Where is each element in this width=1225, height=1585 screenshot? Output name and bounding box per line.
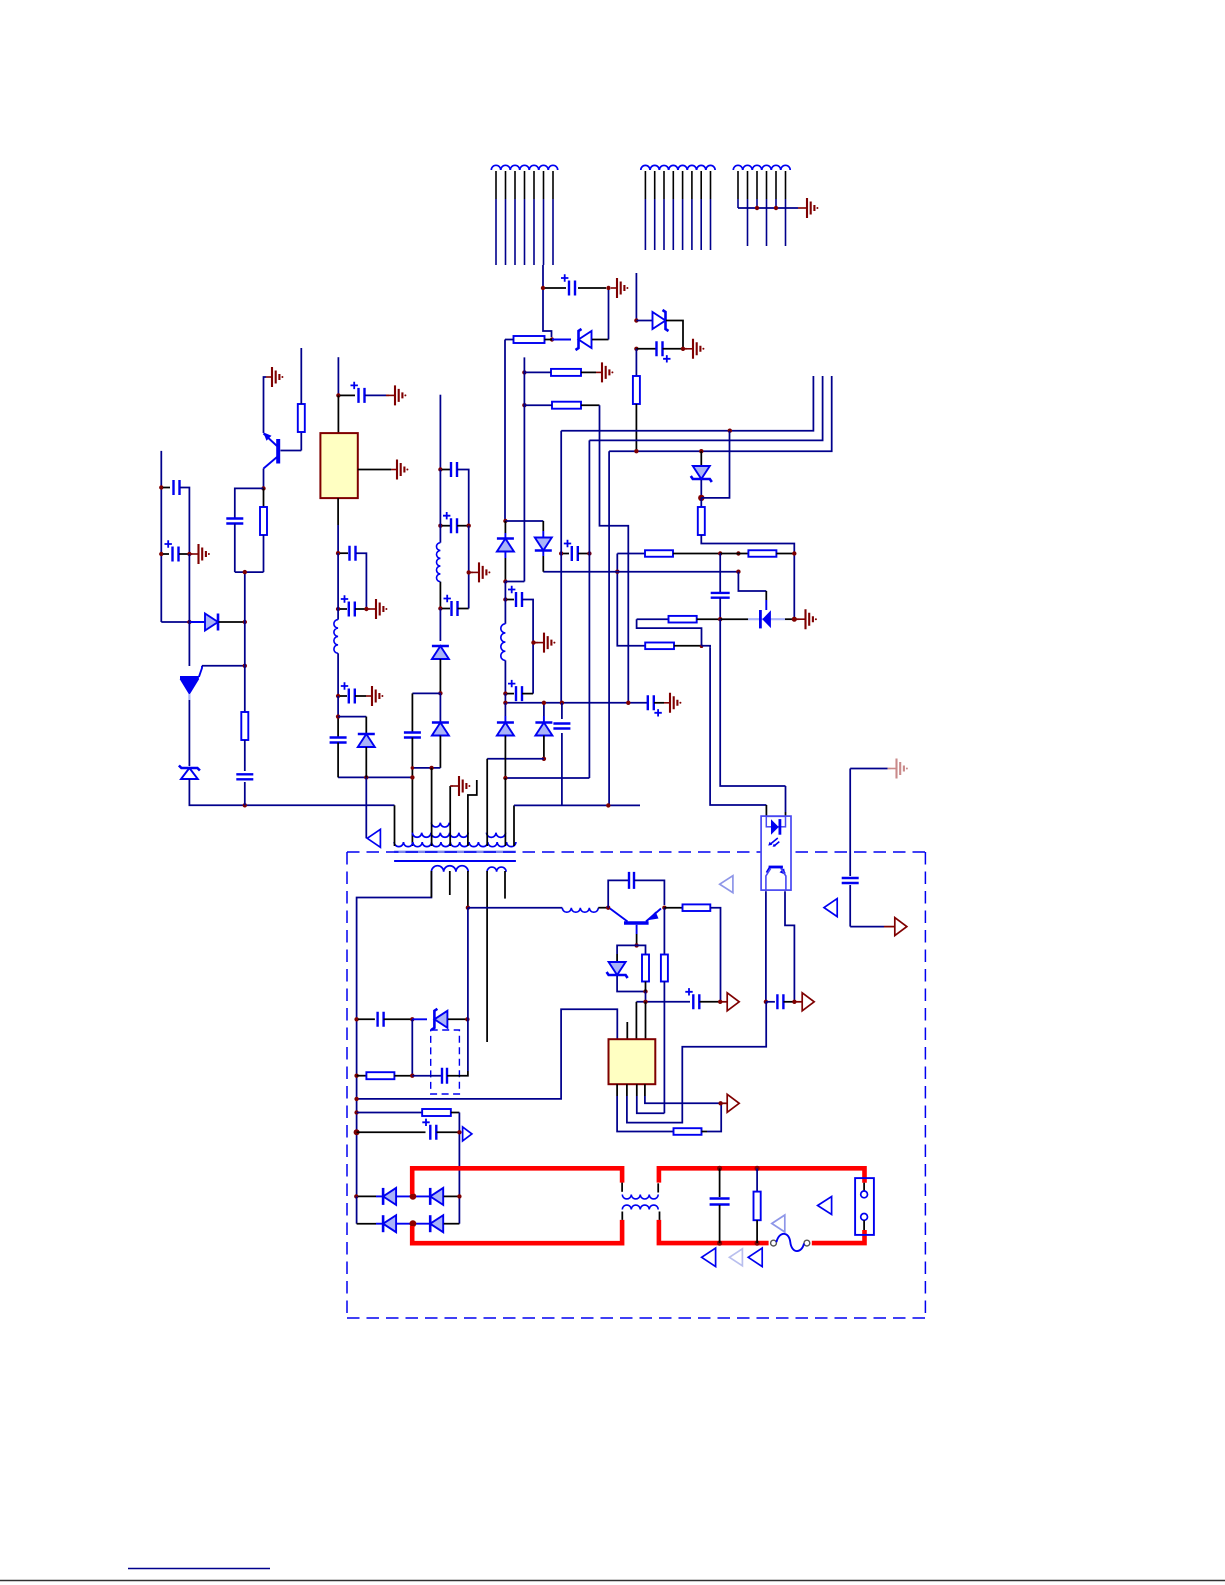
wire x720 upper segment [719, 554, 721, 593]
connector CN1 pin 7 [552, 171, 554, 199]
wire Q2 base down [636, 925, 638, 934]
ground G10 [391, 469, 397, 471]
column x244 [244, 572, 246, 712]
capacitor C12 [173, 547, 179, 562]
capacitor C27 [711, 593, 730, 598]
junction x244-y805 [243, 803, 247, 807]
wire to L3 [337, 553, 339, 619]
wire to C4 [507, 599, 514, 601]
wire Q1 emitter down [263, 469, 265, 489]
junction Q2 base node [634, 943, 638, 947]
wire x467 column [467, 908, 469, 1020]
wire x412 column [411, 1019, 413, 1075]
junction C10 left [438, 606, 442, 610]
capacitor C10 [452, 601, 458, 616]
resistor R1 [514, 336, 545, 343]
wire sec pin3 [467, 871, 469, 908]
junction C17 right [364, 607, 368, 611]
transformer T1 primary winding row3 [431, 823, 449, 827]
wire D2 to C2 [666, 321, 683, 348]
resistor R4 [633, 376, 640, 404]
wire x645 to IC2 [645, 1002, 647, 1039]
zener diode D1 [552, 339, 571, 341]
wire C4 right down [522, 600, 533, 694]
resistor R17 across mains [756, 1168, 758, 1191]
wire to D13 [412, 1018, 427, 1020]
net arrow NA13 [748, 1248, 762, 1267]
diode D9 [432, 723, 449, 736]
connector CN3 pin 3 [756, 171, 758, 199]
connector CN1 pin 4 [524, 171, 526, 199]
red trace left loop [412, 1168, 622, 1243]
wire D14-D15 [397, 1195, 430, 1197]
net arrow NA12 [729, 1249, 742, 1266]
junction C15 left [336, 393, 340, 397]
wire R14 lead [702, 1131, 708, 1133]
junction D4 bottom [503, 579, 507, 583]
diode D7 column x505 lower [504, 703, 506, 716]
wire to L2 [439, 470, 441, 543]
wire T1 pin x487 [486, 759, 488, 846]
capacitor C14 [226, 519, 243, 524]
junction D4 top [503, 519, 507, 523]
junction bus-D6 [542, 701, 546, 705]
junction bridge row1 right [457, 1194, 461, 1198]
net arrow NA6 [802, 993, 814, 1011]
wire to L4 [468, 907, 562, 909]
bridge row1 [358, 1195, 376, 1197]
junction C5 left [503, 691, 507, 695]
ground G5 [664, 702, 670, 704]
junction C3 left [559, 551, 563, 555]
wire C1 to gnd [578, 287, 606, 289]
wire R3 right jog down [600, 405, 629, 703]
junction x505-y778 [503, 776, 507, 780]
ground G12 [366, 695, 372, 697]
node V1 [541, 286, 545, 290]
connector CN1 pin 6 [543, 171, 545, 199]
net arrow NA7 [727, 1094, 739, 1112]
junction R1-D1 [550, 337, 554, 341]
capacitor C18 [349, 689, 355, 704]
junction D13-x467 [465, 1017, 469, 1021]
wire top stub [635, 273, 637, 321]
wire x850 [849, 769, 851, 877]
junction bus-x628 [626, 701, 630, 705]
ground G2 [596, 371, 602, 373]
junction bridge row1 left [354, 1194, 358, 1198]
row y=571.7 wire [543, 571, 738, 573]
diode D7 [497, 723, 514, 736]
footer rule [0, 1580, 1225, 1582]
capacitor C21 [629, 872, 634, 889]
wire to D10 [189, 621, 205, 623]
wire y=758.8 [487, 758, 544, 760]
wire R10-C14 bottom [235, 571, 264, 573]
capacitor C8 [451, 462, 457, 477]
junction C3 right [587, 551, 591, 555]
resistor R6 [645, 550, 673, 557]
wire bus2 [589, 376, 822, 440]
wire bus3 to D3 [700, 451, 702, 465]
wire bus3 left vertical [608, 451, 610, 806]
wire R4 to bus3 [635, 404, 637, 451]
wire x412 to transformer [411, 738, 413, 847]
wire T1 pin x505 [504, 778, 506, 846]
wire D10 right [219, 621, 245, 623]
wire to net arrow NA2 [850, 926, 884, 928]
junction C8 left [438, 467, 442, 471]
wire C16 right down [356, 553, 366, 609]
junction row-R11 [643, 1000, 647, 1004]
junction x617 row [615, 570, 619, 574]
wire sec pin5 stub [504, 871, 506, 899]
junction gnd x533 [531, 640, 535, 644]
junction bus-x505 [503, 701, 507, 705]
red trace right loop [659, 1168, 865, 1243]
wire R18 to x710 [702, 646, 711, 648]
wire x161 corner to D10 [161, 621, 189, 623]
ground G6 [473, 571, 479, 573]
connector CN1 pin 3 [514, 171, 516, 199]
junction Q1 emitter [261, 486, 265, 490]
connector CN2 pin 4 [672, 171, 674, 199]
capacitor C24 [378, 1012, 384, 1027]
connector CN2 pin 7 [700, 171, 702, 199]
inductor L3 [334, 620, 338, 654]
connector CN3 pin arcs [733, 165, 742, 170]
inductor L4 [562, 908, 598, 913]
junction L4-Q2 [606, 906, 610, 910]
net arrow NA11 [702, 1248, 716, 1267]
connector CN3 pin 2 [747, 171, 749, 199]
junction gnd x468 [467, 570, 471, 574]
junction C9 left [438, 524, 442, 528]
resistor R8 [241, 712, 248, 740]
wire to C11 [163, 487, 170, 489]
junction C17 left [336, 607, 340, 611]
IC2 bottom pin wires [616, 1084, 618, 1096]
diode D15 [430, 1188, 443, 1205]
connector CN3 pin 5 [775, 171, 777, 199]
ground G8 [266, 376, 272, 378]
junction C2 right [681, 347, 685, 351]
capacitor C22 [693, 994, 699, 1009]
diode D16 [383, 1215, 396, 1232]
junction bridge AC2 [410, 1220, 417, 1227]
resistor R14 [674, 1128, 702, 1135]
wire R1 left [505, 339, 514, 341]
wire to C16 [340, 552, 348, 554]
transistor Q1 [276, 439, 280, 464]
junction sec pin3 [466, 906, 470, 910]
wire x561 lower [561, 703, 563, 719]
wire to D8 [439, 609, 441, 642]
transformer T1 secondary winding left [431, 866, 468, 872]
connector CN1 pin 2 [505, 171, 507, 199]
wire y805 right segment [514, 804, 640, 806]
junction D2 top [634, 318, 638, 322]
wire bus1 [561, 376, 813, 431]
resistor R10 [260, 507, 267, 535]
junction x412-y777 [410, 775, 414, 779]
wire R1 left long vertical [504, 340, 506, 522]
junction row1075 left [354, 1074, 358, 1078]
wire to C1 [545, 287, 566, 289]
wire to R13 [664, 907, 682, 909]
ground G3 [687, 348, 693, 350]
wire R11 to row [645, 992, 647, 1002]
optocoupler U2 [761, 816, 791, 890]
capacitor C15 [359, 388, 365, 403]
wire IC1 out pin [337, 498, 339, 525]
connector CN2 pin 3 [663, 171, 665, 199]
wire base to R9 [300, 432, 302, 451]
capacitor C19 [442, 1068, 447, 1084]
wire x459 column [458, 1113, 460, 1197]
capacitor C20 [842, 878, 859, 883]
wire to L1 [504, 600, 506, 624]
connector CN3 pin 6 [785, 171, 787, 199]
junction R15-C19 [410, 1074, 414, 1078]
net arrow NA9 [818, 1197, 832, 1215]
junction LED-gnd [792, 617, 797, 622]
capacitor C2 [657, 341, 663, 356]
thyristor Q3 [188, 554, 190, 666]
wire sec pin1 elbow [357, 871, 432, 1019]
wire R6-R7 link [720, 553, 748, 555]
wire bus2 left vertical [588, 440, 590, 778]
junction R19-C27 [718, 617, 722, 621]
resistor R11 [642, 955, 649, 982]
capacitor C9 [451, 518, 457, 533]
wire Q1 base [281, 450, 302, 452]
wire T1 pin x514 [513, 805, 515, 846]
wire L-path to LED cathode [738, 572, 766, 591]
junction row1112 left [354, 1110, 358, 1114]
wire C10 right [458, 608, 469, 610]
junction x608-y805 [606, 803, 610, 807]
wire x161 [160, 451, 162, 622]
capacitor C26 across mains [719, 1168, 721, 1197]
junction D10 left [187, 620, 191, 624]
wire R5 to LED node [701, 535, 794, 619]
diode D8 [432, 646, 449, 659]
wire Q3 gate [202, 665, 245, 667]
wire to D9 [439, 693, 441, 722]
junction gate-x244 [243, 664, 247, 668]
wire to R19 [637, 618, 669, 620]
wire to R11 [637, 945, 646, 954]
transformer T1 core [394, 851, 516, 853]
wire x720 column [720, 619, 785, 786]
wire R19 right [697, 618, 721, 620]
wire x440 top [439, 395, 441, 470]
wire R12 down [663, 982, 665, 1114]
wire D12 bottom [617, 976, 645, 992]
wire R6-R7 [673, 553, 720, 555]
capacitor C16 [350, 546, 356, 561]
wire C7 down [561, 733, 563, 806]
capacitor C4 [516, 592, 522, 607]
net arrow NA2 [895, 918, 907, 936]
wire to C23 [766, 1001, 775, 1003]
zener diode D13 [434, 1011, 447, 1028]
connector CN1 pin 5 [533, 171, 535, 199]
junction CN3 bus [755, 206, 759, 210]
wire to C5 [507, 693, 514, 695]
ground G1 [611, 287, 617, 289]
capacitor C21 arch [608, 880, 628, 907]
wire to C19b [358, 1018, 375, 1020]
wire C6 right [654, 702, 664, 704]
junction row1098 [354, 1097, 358, 1101]
wire sec pin2 stub [449, 871, 451, 895]
wire to R12 [663, 908, 665, 955]
transformer T1 primary winding row1 [394, 842, 516, 847]
junction CN3 bus 2 [774, 206, 778, 210]
junction C22 right [718, 1000, 722, 1004]
diode D6 [535, 723, 552, 736]
wire y805 to transformer [189, 779, 394, 805]
connector CN2 pin 5 [682, 171, 684, 199]
wire IC1 vcc stub [337, 357, 339, 395]
wire IC1 gnd pin [358, 469, 391, 471]
wire D4-D5 top [505, 520, 543, 522]
wire to C2 [636, 348, 656, 350]
zener diode D3 [693, 466, 710, 479]
wire R14 up [707, 1103, 721, 1131]
junction y571 right [736, 570, 740, 574]
junction R7 left [736, 551, 740, 555]
bridge row2 [357, 1223, 376, 1225]
capacitor C5 [516, 686, 522, 701]
connector CN1 pin 1 [495, 171, 497, 199]
junction opto-C23 [764, 1000, 768, 1004]
wire to C8 [442, 469, 450, 471]
junction D3-R5 [698, 495, 704, 501]
wire C15 to IC1 [337, 395, 339, 433]
wire to C18 [340, 695, 347, 697]
junction bus3-R4 [634, 449, 638, 453]
capacitor C11 [174, 480, 180, 495]
wire y693 [412, 692, 440, 694]
net arrow NA4 [720, 876, 733, 893]
wire C11 right down [180, 488, 189, 555]
wire to D2 [636, 320, 652, 322]
junction C1-gnd [606, 286, 610, 290]
wire bus2 to transformer jog [505, 777, 589, 779]
dashed box around C19 [431, 1030, 460, 1094]
wire Q1 collector up [264, 377, 267, 433]
junction C23 right [792, 1000, 796, 1004]
wire x356 column [356, 1019, 358, 1196]
junction C12 left [159, 552, 163, 556]
diode D19 [358, 734, 375, 747]
capacitor C3 [572, 546, 578, 561]
connector CN2 pin 8 [710, 171, 712, 199]
wire bus y702 [505, 702, 647, 704]
wire R18 right [674, 645, 702, 647]
wire bus1 left vertical [560, 431, 562, 703]
choke L5 top winding [621, 1183, 623, 1192]
transformer T1 primary winding row2 [412, 833, 468, 838]
resistor R2 [551, 369, 581, 376]
junction row1019 left [354, 1017, 358, 1021]
junction bus-x561 [560, 701, 564, 705]
resistor R16 [422, 1109, 451, 1116]
wire V1 to R1 node [543, 290, 552, 337]
junction dots mains [717, 1166, 722, 1171]
wire to C3 [563, 553, 569, 555]
capacitor C7 [553, 724, 570, 729]
wire x468 gnd column [468, 526, 470, 609]
wire zigzag y619-y646 [637, 619, 702, 646]
resistor R15 [366, 1072, 394, 1079]
capacitor C23 [777, 994, 783, 1009]
resistor R3 row [522, 403, 526, 407]
wire to C17 [340, 608, 347, 610]
net arrow NA3 [824, 899, 837, 917]
junction C25 right [457, 1130, 461, 1134]
wire CN1 pin6 down [542, 265, 544, 288]
ground G4 [538, 642, 544, 644]
wire bus3 [609, 376, 832, 451]
wire D1 to up [592, 339, 609, 341]
wire R9 top stub [300, 348, 302, 404]
junction bridge AC1 [410, 1193, 417, 1200]
capacitor C28 [404, 733, 421, 738]
connector CN2 pin 2 [654, 171, 656, 199]
junction R6 right [718, 551, 722, 555]
wire IC2 top stub [626, 1022, 628, 1039]
ground G7 [193, 553, 199, 555]
junction D8 bottom [438, 691, 442, 695]
connector CN2 pin arcs [641, 165, 650, 170]
resistor R5 [698, 507, 705, 535]
wire x710 column [710, 647, 766, 805]
diode D14 [383, 1188, 396, 1205]
wire opto collector down [785, 891, 794, 1002]
wire y=777.4 to x338 column [338, 776, 412, 778]
wire to D12 [617, 945, 637, 954]
IC U1 [320, 433, 357, 498]
IC U3 [609, 1039, 656, 1084]
wire CN3 ground bus [738, 207, 798, 209]
junction x366-y777 [364, 775, 368, 779]
wire to D4 [504, 521, 506, 533]
wire pin3 elbow [637, 1096, 665, 1113]
wire to C10 [442, 608, 450, 610]
wire Q3 to D11 [188, 700, 190, 766]
junction D12-R11 [643, 989, 647, 993]
ground CN3 [801, 207, 807, 209]
junction D6 bottom [542, 757, 546, 761]
capacitor C25 [430, 1125, 436, 1140]
wire to C15 [340, 394, 355, 396]
wire R13 to row [710, 908, 720, 1002]
junction bus3-D3 [699, 449, 703, 453]
capacitor C17 [349, 602, 355, 617]
resistor R13 [683, 904, 711, 911]
footer link line [128, 1568, 270, 1570]
wire x617 vertical [617, 554, 645, 646]
wire opto pin1 [765, 805, 767, 816]
wire opto pin4 drop [785, 786, 787, 812]
junction Q2 emitter node [662, 906, 666, 910]
junction C18 left [336, 694, 340, 698]
junction pin4-R14 [718, 1101, 722, 1105]
